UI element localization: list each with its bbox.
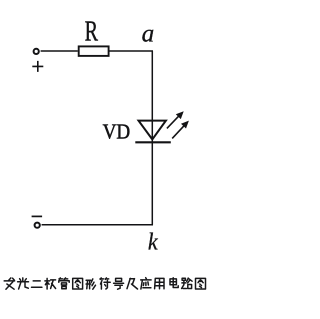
svg-text:a: a [142, 21, 155, 48]
light arrow 1 [167, 111, 184, 128]
plus label [32, 61, 43, 72]
svg-text:VD: VD [103, 119, 131, 143]
wire resistor to corner a [109, 50, 153, 52]
svg-text:R: R [85, 17, 99, 48]
resistor R [79, 46, 109, 56]
terminal - (bottom left) [35, 223, 40, 228]
light arrow 2 [172, 121, 189, 139]
LED VD triangle [139, 121, 166, 140]
terminal + (top left) [34, 49, 39, 54]
wire vertical right [151, 51, 153, 225]
LED cathode bar [135, 141, 171, 143]
wire bottom [42, 224, 153, 226]
caption: 发光二极管图形符号及应用电路图 (drawn strokes) [4, 278, 14, 289]
minus label [32, 215, 42, 217]
wire top-left [41, 50, 78, 52]
svg-text:k: k [148, 229, 158, 255]
